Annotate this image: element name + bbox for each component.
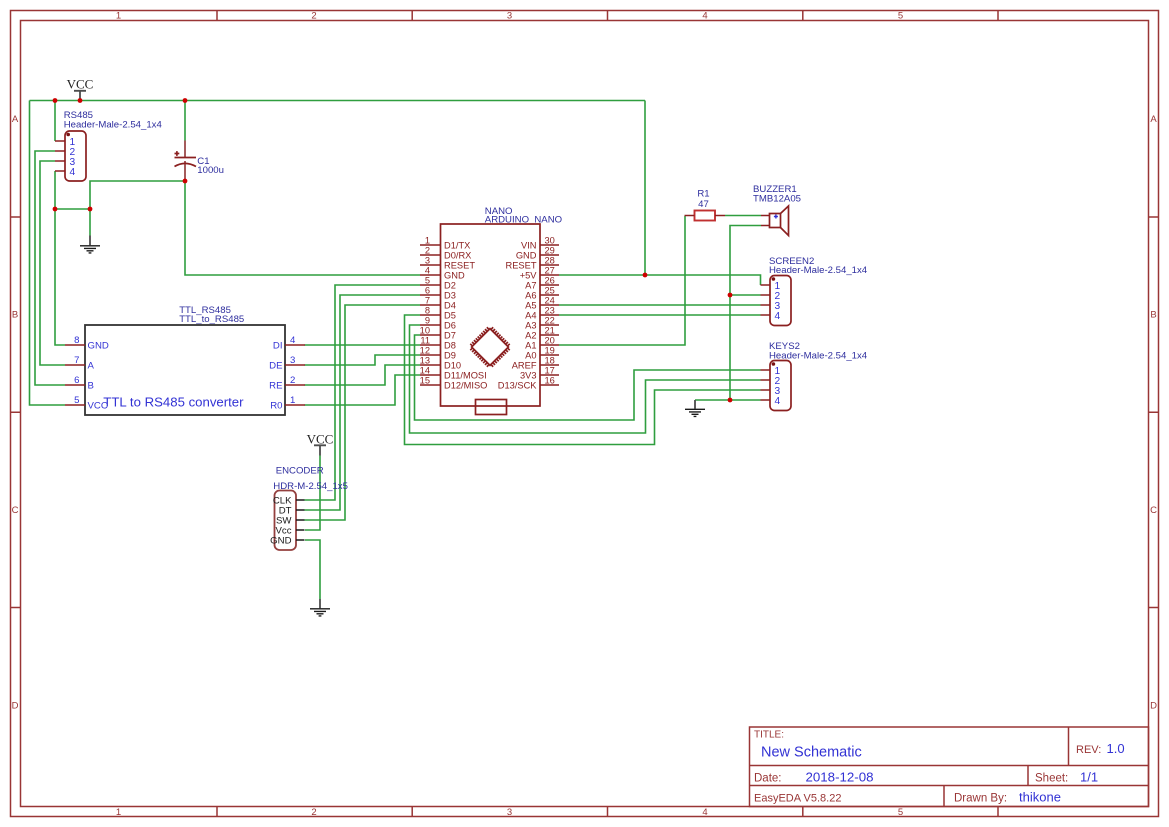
svg-text:6: 6 <box>425 286 430 296</box>
svg-text:2: 2 <box>290 375 295 386</box>
svg-text:4: 4 <box>702 11 707 22</box>
svg-text:20: 20 <box>545 336 555 346</box>
wire <box>730 226 761 401</box>
svg-text:3: 3 <box>507 11 512 22</box>
wire <box>559 304 761 306</box>
svg-text:27: 27 <box>545 266 555 276</box>
buzzer BUZZER1 <box>753 184 801 236</box>
svg-text:C: C <box>12 505 19 516</box>
ground (near RS485) <box>80 236 100 253</box>
svg-text:Sheet:: Sheet: <box>1035 773 1068 785</box>
svg-text:7: 7 <box>425 296 430 306</box>
svg-text:8: 8 <box>74 335 79 346</box>
header KEYS2 <box>761 341 868 411</box>
svg-text:14: 14 <box>420 366 430 376</box>
svg-text:5: 5 <box>74 395 79 406</box>
svg-text:11: 11 <box>420 336 430 346</box>
svg-text:D6: D6 <box>444 320 456 330</box>
svg-text:D13/SCK: D13/SCK <box>498 380 538 390</box>
wire <box>559 216 685 345</box>
svg-text:1.0: 1.0 <box>1107 741 1125 756</box>
wire <box>30 100 646 102</box>
junction <box>183 179 188 184</box>
wire <box>405 315 761 445</box>
svg-text:Header-Male-2.54_1x4: Header-Male-2.54_1x4 <box>64 119 163 130</box>
svg-text:29: 29 <box>545 246 555 256</box>
svg-text:AREF: AREF <box>512 360 537 370</box>
svg-text:EasyEDA V5.8.22: EasyEDA V5.8.22 <box>754 793 841 805</box>
svg-text:D9: D9 <box>444 350 456 360</box>
svg-text:D11/MOSI: D11/MOSI <box>444 370 487 380</box>
wire <box>184 101 186 141</box>
svg-text:10: 10 <box>420 326 430 336</box>
junction <box>643 273 648 278</box>
wire <box>305 540 320 599</box>
svg-text:21: 21 <box>545 326 555 336</box>
svg-text:22: 22 <box>545 316 555 326</box>
svg-text:RE: RE <box>269 381 282 392</box>
svg-text:4: 4 <box>425 266 430 276</box>
svg-text:8: 8 <box>425 306 430 316</box>
svg-text:3: 3 <box>425 256 430 266</box>
svg-text:D8: D8 <box>444 340 456 350</box>
svg-text:19: 19 <box>545 346 555 356</box>
wire <box>54 101 56 142</box>
svg-text:New Schematic: New Schematic <box>761 745 862 761</box>
IC NANO ARDUINO_NANO <box>420 206 562 415</box>
svg-text:1: 1 <box>116 11 121 22</box>
svg-text:5: 5 <box>898 807 903 818</box>
wire <box>305 456 320 531</box>
svg-text:D2: D2 <box>444 280 456 290</box>
svg-text:3: 3 <box>290 355 295 366</box>
svg-text:5: 5 <box>425 276 430 286</box>
svg-text:A7: A7 <box>525 280 536 290</box>
svg-text:5: 5 <box>898 11 903 22</box>
svg-text:TMB12A05: TMB12A05 <box>753 194 801 205</box>
svg-text:GND: GND <box>270 535 291 546</box>
svg-text:D12/MISO: D12/MISO <box>444 380 487 390</box>
chip glyph <box>467 324 513 370</box>
ground (encoder) <box>310 599 330 616</box>
svg-text:17: 17 <box>545 366 555 376</box>
svg-text:A3: A3 <box>525 320 536 330</box>
wire <box>410 325 761 433</box>
svg-text:47: 47 <box>698 199 709 210</box>
svg-text:B: B <box>1150 310 1156 321</box>
svg-text:4: 4 <box>702 807 707 818</box>
svg-text:26: 26 <box>545 276 555 286</box>
wire <box>305 375 421 405</box>
svg-text:A1: A1 <box>525 340 536 350</box>
header SCREEN2 <box>761 256 868 326</box>
svg-text:A0: A0 <box>525 350 536 360</box>
svg-text:2: 2 <box>311 11 316 22</box>
svg-text:DE: DE <box>269 361 282 372</box>
svg-text:R1: R1 <box>697 189 709 200</box>
header RS485 <box>55 110 162 181</box>
svg-text:ENCODER: ENCODER <box>276 466 324 477</box>
junction <box>88 207 93 212</box>
junction <box>53 98 58 103</box>
svg-text:4: 4 <box>775 396 781 407</box>
wire <box>305 365 421 385</box>
svg-text:D10: D10 <box>444 360 461 370</box>
svg-text:VCC: VCC <box>307 431 334 446</box>
svg-text:A: A <box>1150 114 1157 125</box>
svg-text:6: 6 <box>74 375 79 386</box>
wire <box>305 344 421 346</box>
capacitor C1 <box>175 141 224 182</box>
svg-text:1000u: 1000u <box>197 165 224 176</box>
wire <box>559 275 761 285</box>
svg-text:2018-12-08: 2018-12-08 <box>806 770 874 785</box>
svg-text:B: B <box>12 310 18 321</box>
junction <box>728 398 733 403</box>
junction <box>183 98 188 103</box>
svg-text:3: 3 <box>507 807 512 818</box>
wire <box>89 209 91 236</box>
wire <box>305 355 421 365</box>
power flag VCC (top left) <box>67 77 94 101</box>
svg-text:15: 15 <box>420 376 430 386</box>
svg-text:D7: D7 <box>444 330 456 340</box>
svg-text:4: 4 <box>290 335 296 346</box>
svg-text:A4: A4 <box>525 310 536 320</box>
IC U TTL_RS485 converter <box>65 305 305 415</box>
usb connector <box>476 400 507 415</box>
svg-text:1/1: 1/1 <box>1080 770 1098 785</box>
svg-text:9: 9 <box>425 316 430 326</box>
svg-text:GND: GND <box>516 250 537 260</box>
svg-text:TTL to RS485 converter: TTL to RS485 converter <box>103 395 244 410</box>
junction <box>78 98 83 103</box>
svg-text:D0/RX: D0/RX <box>444 250 471 260</box>
svg-text:4: 4 <box>70 167 76 178</box>
wire <box>305 295 421 510</box>
svg-text:1: 1 <box>290 395 295 406</box>
wire <box>90 181 185 209</box>
svg-text:7: 7 <box>74 355 79 366</box>
wire <box>415 335 761 420</box>
svg-text:2: 2 <box>311 807 316 818</box>
svg-text:TTL_to_RS485: TTL_to_RS485 <box>179 314 244 325</box>
svg-text:16: 16 <box>545 376 555 386</box>
wire <box>185 181 420 275</box>
svg-text:thikone: thikone <box>1019 790 1061 805</box>
svg-text:A6: A6 <box>525 290 536 300</box>
svg-text:+5V: +5V <box>520 270 538 280</box>
svg-text:13: 13 <box>420 356 430 366</box>
svg-text:B: B <box>88 381 94 392</box>
svg-text:D5: D5 <box>444 310 456 320</box>
svg-text:Date:: Date: <box>754 773 782 785</box>
resistor R1 <box>685 189 726 221</box>
svg-text:DI: DI <box>273 341 283 352</box>
svg-text:23: 23 <box>545 306 555 316</box>
svg-text:Header-Male-2.54_1x4: Header-Male-2.54_1x4 <box>769 265 868 276</box>
svg-text:RESET: RESET <box>444 260 475 270</box>
svg-text:A5: A5 <box>525 300 536 310</box>
svg-text:A2: A2 <box>525 330 536 340</box>
svg-text:D1/TX: D1/TX <box>444 240 470 250</box>
svg-text:4: 4 <box>775 311 781 322</box>
junction <box>728 293 733 298</box>
svg-text:D3: D3 <box>444 290 456 300</box>
wire <box>305 285 421 500</box>
wire <box>725 215 761 217</box>
wire <box>695 399 761 401</box>
ground (near KEYS2) <box>685 400 705 416</box>
svg-text:D: D <box>1150 701 1157 712</box>
svg-text:A: A <box>12 114 19 125</box>
wire <box>644 101 646 276</box>
wire <box>559 314 761 316</box>
wire <box>30 101 66 406</box>
svg-text:1: 1 <box>116 807 121 818</box>
wire <box>730 294 761 296</box>
svg-text:R0: R0 <box>270 401 282 412</box>
junction <box>53 207 58 212</box>
svg-text:18: 18 <box>545 356 555 366</box>
svg-text:12: 12 <box>420 346 430 356</box>
wire <box>40 161 65 365</box>
svg-text:1: 1 <box>425 236 430 246</box>
svg-text:30: 30 <box>545 236 555 246</box>
wire <box>54 171 56 209</box>
svg-text:GND: GND <box>88 341 109 352</box>
svg-text:A: A <box>88 361 95 372</box>
svg-text:RESET: RESET <box>506 260 537 270</box>
svg-text:VIN: VIN <box>521 240 537 250</box>
svg-text:25: 25 <box>545 286 555 296</box>
wire <box>55 208 90 210</box>
wire <box>305 305 421 520</box>
svg-text:Drawn By:: Drawn By: <box>954 793 1007 805</box>
header ENCODER <box>270 466 348 551</box>
svg-text:24: 24 <box>545 296 555 306</box>
svg-text:3V3: 3V3 <box>520 370 537 380</box>
wire <box>55 209 65 345</box>
svg-text:TITLE:: TITLE: <box>754 730 784 741</box>
wire <box>35 151 65 385</box>
svg-text:D: D <box>12 701 19 712</box>
svg-text:2: 2 <box>425 246 430 256</box>
svg-text:C: C <box>1150 505 1157 516</box>
svg-text:D4: D4 <box>444 300 456 310</box>
svg-text:VCC: VCC <box>67 77 94 92</box>
power flag VCC (encoder) <box>307 431 334 455</box>
svg-text:GND: GND <box>444 270 465 280</box>
title block <box>750 727 1149 807</box>
svg-text:REV:: REV: <box>1076 744 1101 756</box>
svg-text:28: 28 <box>545 256 555 266</box>
